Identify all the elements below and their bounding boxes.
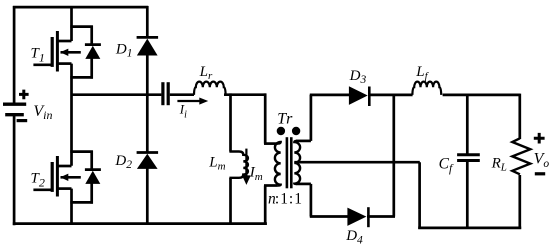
wire: primary top horizontal xyxy=(264,142,278,145)
svg-text:Lf: Lf xyxy=(415,64,429,82)
diode D3 xyxy=(349,86,369,106)
svg-text:Vo: Vo xyxy=(534,151,550,170)
transformer Tr primary winding xyxy=(275,142,281,186)
transformer Tr secondary winding xyxy=(294,141,300,184)
wire: D1-D2 vertical from top rail xyxy=(146,6,149,38)
capacitor Cf xyxy=(457,155,480,161)
wire: T1 top link to body diode xyxy=(70,25,93,28)
svg-text:T2: T2 xyxy=(31,171,45,190)
wire: capacitor to Lr xyxy=(170,93,194,96)
arrow: input current Ii xyxy=(177,98,208,105)
transformer Tr core xyxy=(287,137,291,188)
wire: half-bridge mid rail xyxy=(72,93,162,96)
wire: secondary top horizontal xyxy=(296,140,311,143)
output minus sign xyxy=(535,172,545,175)
wire: RL bottom vertical xyxy=(518,175,521,229)
diode D2 xyxy=(137,153,159,169)
svg-text:D4: D4 xyxy=(345,228,363,246)
wire: T2 source to bottom rail xyxy=(70,189,73,225)
diode D4 xyxy=(347,207,368,227)
svg-text:D1: D1 xyxy=(115,41,133,59)
transistor T1 (MOSFET) xyxy=(33,31,80,72)
wire: secondary top rail to D3 xyxy=(310,94,349,97)
transistor T2 (MOSFET) xyxy=(33,156,80,197)
wire: top rail xyxy=(13,6,148,9)
wire: Lm branch bottom vertical xyxy=(229,178,232,225)
svg-text:Lr: Lr xyxy=(199,64,213,82)
wire: Lf to output node and RL corner xyxy=(443,94,520,97)
wire: T2 source bottom link xyxy=(70,201,93,204)
svg-text:Im: Im xyxy=(249,165,263,183)
wire: RL top vertical xyxy=(518,94,521,139)
wire: primary bottom horizontal xyxy=(264,184,278,187)
svg-text:RL: RL xyxy=(491,156,507,174)
wire: T1 drain leg from top rail xyxy=(70,6,73,41)
wire: Lm branch top vertical xyxy=(229,93,232,151)
svg-text:Vin: Vin xyxy=(33,103,52,122)
wire: bottom right rail xyxy=(418,227,521,230)
wire: secondary bottom horizontal xyxy=(296,183,311,186)
svg-text:Tr: Tr xyxy=(277,111,293,128)
transformer Tr polarity dot (primary) xyxy=(277,127,285,135)
wire: primary bottom vertical xyxy=(264,186,267,226)
wire: Lr to Lm node xyxy=(224,93,266,96)
wire: bottom left rail xyxy=(13,222,267,225)
wire: half-bridge leg (T1 source to T2 drain) xyxy=(70,64,73,166)
wire: Cf bottom vertical xyxy=(466,162,469,230)
wire: D3 cathode to Lf xyxy=(368,94,413,97)
wire: left input wire (battery bottom) xyxy=(13,115,16,225)
wire: T2 top link to body diode xyxy=(70,150,93,153)
wire: D4 anode line xyxy=(310,215,348,218)
inductor Lm xyxy=(229,152,248,178)
svg-text:T1: T1 xyxy=(31,46,45,65)
resistor RL xyxy=(512,138,530,174)
diode D1 xyxy=(137,37,159,55)
wire: D1 anode to D2 cathode xyxy=(146,55,149,153)
svg-text:n:1:1: n:1:1 xyxy=(268,191,302,208)
wire: left input wire (battery top) xyxy=(13,6,16,103)
diode: T2 body diode xyxy=(85,151,101,204)
svg-text:Cf: Cf xyxy=(439,156,454,175)
svg-text:Lm: Lm xyxy=(208,155,225,173)
svg-text:D3: D3 xyxy=(349,68,367,86)
inductor Lr xyxy=(194,82,226,95)
battery Vin xyxy=(3,90,29,121)
svg-text:D2: D2 xyxy=(114,153,132,171)
wire: Cf top vertical xyxy=(466,95,469,154)
output plus sign xyxy=(534,133,545,144)
wire: secondary top vertical to D3 rail xyxy=(310,95,313,141)
wire: T1 source bottom link xyxy=(70,76,93,79)
inductor Lf xyxy=(412,82,441,95)
wire: rectifier cathode junction vertical (D3 to D4) xyxy=(392,95,395,217)
diode: T1 body diode xyxy=(85,26,101,79)
transformer Tr polarity dot (secondary) xyxy=(292,127,300,135)
wire: D4 cathode to junction xyxy=(367,215,395,218)
arrow: magnetizing current Im xyxy=(242,149,251,185)
wire: secondary bottom vertical to D4 xyxy=(310,184,313,217)
svg-text:Ii: Ii xyxy=(179,102,187,121)
wire: secondary center tap xyxy=(294,161,420,164)
capacitor Cr (resonant series capacitor) xyxy=(163,82,168,105)
wire: D2 anode to bottom rail xyxy=(146,168,149,225)
wire: center tap down leg xyxy=(418,162,421,229)
wire: primary top vertical xyxy=(264,93,267,143)
